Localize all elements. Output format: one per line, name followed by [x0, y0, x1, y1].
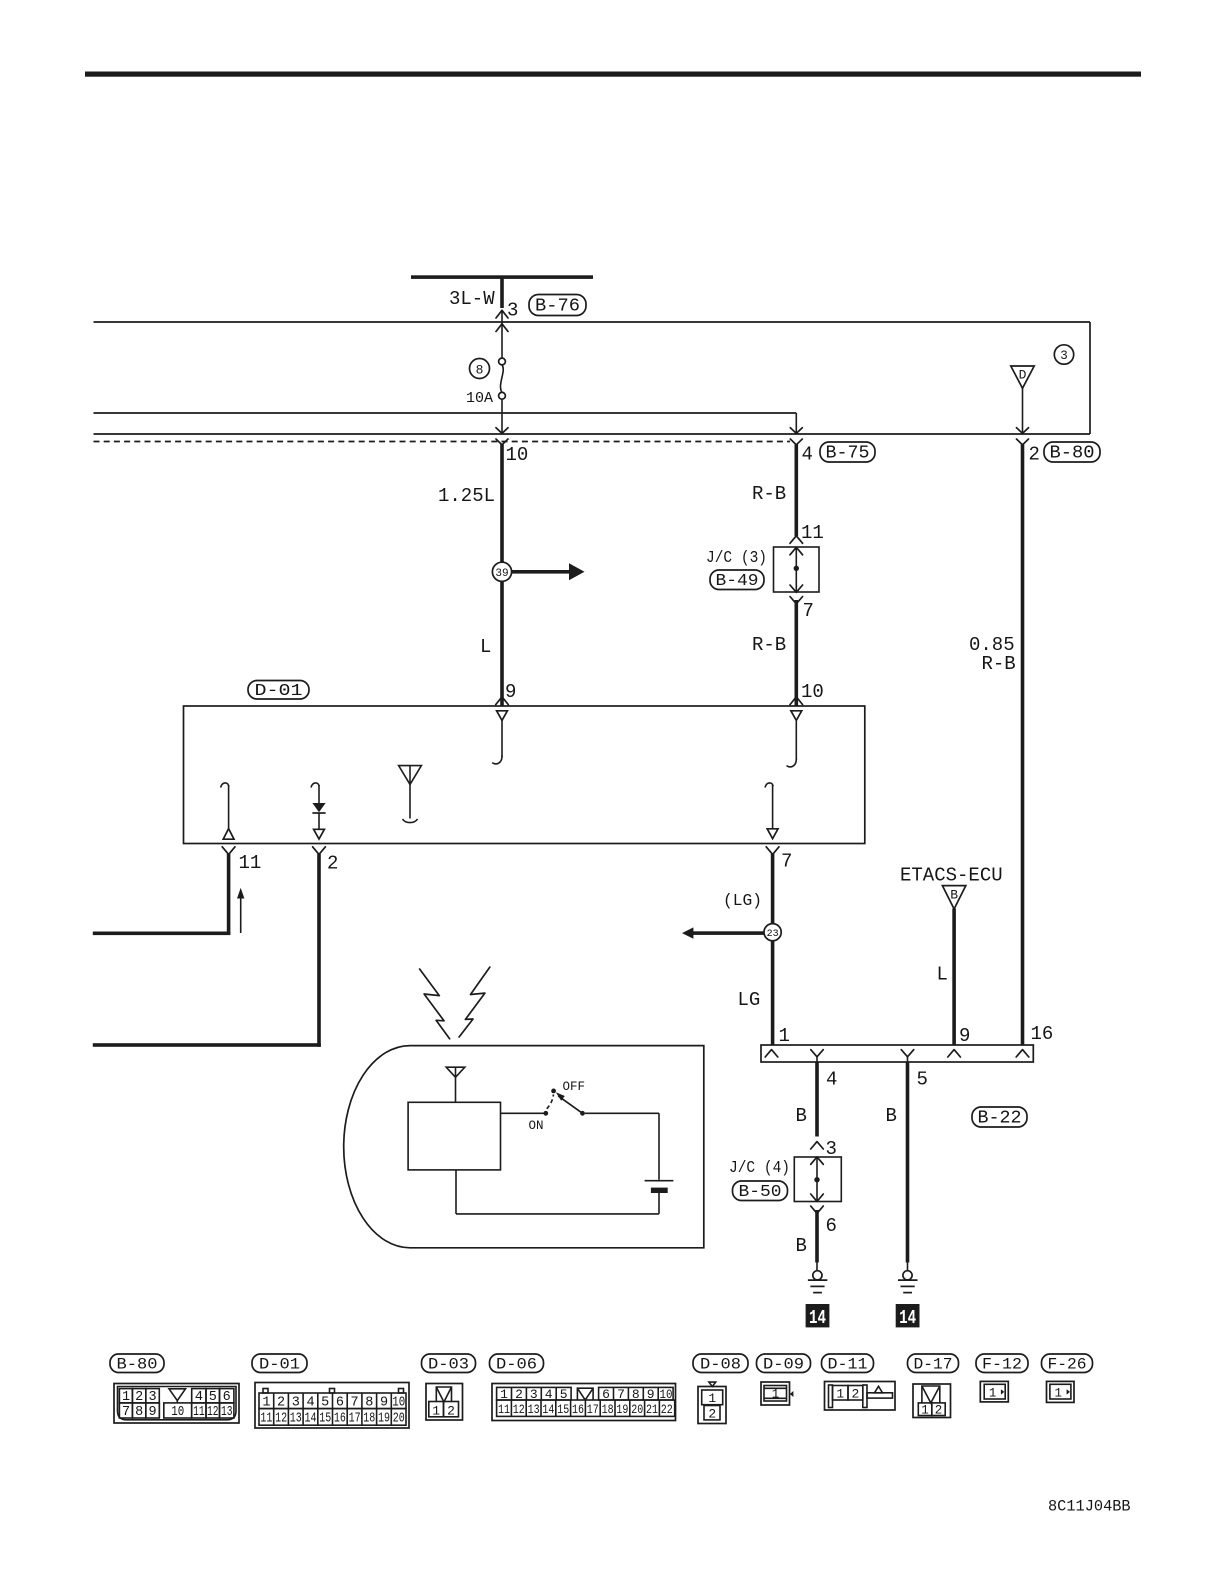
svg-text:D-17: D-17 [914, 1356, 953, 1374]
svg-text:9: 9 [647, 1387, 655, 1402]
svg-text:2: 2 [708, 1406, 716, 1421]
svg-text:8: 8 [365, 1396, 373, 1411]
svg-text:F-12: F-12 [982, 1356, 1022, 1374]
svg-text:B-50: B-50 [739, 1183, 782, 1202]
svg-text:4: 4 [545, 1387, 553, 1402]
svg-text:5: 5 [321, 1396, 329, 1411]
svg-text:D-11: D-11 [828, 1356, 868, 1374]
svg-text:1: 1 [989, 1387, 997, 1401]
svg-text:B: B [886, 1105, 897, 1127]
svg-text:3: 3 [1060, 349, 1068, 363]
svg-text:B-49: B-49 [716, 572, 759, 591]
svg-text:2: 2 [327, 853, 338, 875]
svg-text:R-B: R-B [982, 653, 1016, 675]
svg-text:ETACS-ECU: ETACS-ECU [900, 865, 1003, 887]
svg-text:2: 2 [515, 1387, 523, 1402]
svg-text:14: 14 [809, 1307, 826, 1329]
svg-text:10: 10 [171, 1405, 184, 1420]
svg-text:B-80: B-80 [117, 1356, 158, 1374]
svg-text:2: 2 [1029, 444, 1040, 466]
svg-text:17: 17 [349, 1412, 361, 1427]
svg-text:3: 3 [292, 1396, 300, 1411]
svg-text:16: 16 [572, 1402, 584, 1417]
svg-text:D-09: D-09 [763, 1356, 804, 1374]
svg-text:19: 19 [378, 1412, 390, 1427]
svg-text:12: 12 [275, 1412, 287, 1427]
svg-text:2: 2 [935, 1404, 943, 1418]
svg-text:15: 15 [557, 1402, 569, 1417]
svg-text:D-08: D-08 [700, 1356, 741, 1374]
svg-text:5: 5 [560, 1387, 568, 1402]
svg-text:20: 20 [631, 1402, 643, 1417]
svg-text:ON: ON [529, 1119, 544, 1133]
svg-text:23: 23 [767, 929, 779, 940]
svg-text:(LG): (LG) [723, 892, 762, 911]
svg-text:LG: LG [738, 989, 761, 1011]
svg-text:18: 18 [363, 1412, 375, 1427]
svg-text:R-B: R-B [752, 483, 786, 505]
svg-text:3: 3 [507, 300, 518, 322]
svg-text:2: 2 [135, 1390, 143, 1405]
svg-text:7: 7 [803, 600, 814, 622]
svg-text:5: 5 [917, 1069, 928, 1091]
svg-text:13: 13 [221, 1405, 233, 1420]
svg-text:1: 1 [122, 1390, 130, 1405]
svg-text:11: 11 [260, 1412, 272, 1427]
svg-text:OFF: OFF [563, 1080, 586, 1094]
svg-text:7: 7 [781, 851, 792, 873]
svg-text:B-80: B-80 [1050, 444, 1095, 464]
svg-text:39: 39 [495, 568, 508, 580]
svg-text:1: 1 [500, 1387, 508, 1402]
svg-text:16: 16 [334, 1412, 346, 1427]
svg-text:2: 2 [447, 1404, 455, 1419]
svg-text:3: 3 [530, 1387, 538, 1402]
svg-text:11: 11 [498, 1402, 510, 1417]
svg-text:8C11J04BB: 8C11J04BB [1048, 1498, 1131, 1516]
svg-text:11: 11 [193, 1405, 205, 1420]
svg-text:6: 6 [223, 1390, 231, 1405]
svg-text:B: B [796, 1235, 807, 1257]
svg-text:5: 5 [209, 1390, 217, 1405]
svg-text:7: 7 [122, 1405, 130, 1420]
svg-text:21: 21 [646, 1402, 658, 1417]
svg-text:9: 9 [380, 1396, 388, 1411]
svg-text:L: L [937, 964, 948, 986]
svg-text:B-76: B-76 [535, 297, 580, 317]
svg-text:1: 1 [432, 1404, 440, 1419]
svg-text:2: 2 [277, 1396, 285, 1411]
svg-text:8: 8 [135, 1405, 143, 1420]
svg-text:D-06: D-06 [496, 1356, 537, 1374]
svg-text:8: 8 [476, 362, 484, 377]
svg-text:6: 6 [826, 1215, 837, 1237]
svg-text:22: 22 [661, 1402, 673, 1417]
svg-text:9: 9 [505, 681, 516, 703]
svg-text:6: 6 [336, 1396, 344, 1411]
svg-text:4: 4 [826, 1069, 837, 1091]
svg-text:J/C (4): J/C (4) [729, 1159, 790, 1178]
svg-text:1: 1 [1055, 1387, 1063, 1401]
svg-text:1: 1 [708, 1391, 716, 1406]
svg-text:B-22: B-22 [978, 1109, 1022, 1129]
svg-text:1: 1 [836, 1387, 844, 1402]
svg-text:12: 12 [513, 1402, 525, 1417]
svg-text:J/C (3): J/C (3) [706, 549, 767, 568]
svg-text:6: 6 [602, 1387, 610, 1402]
svg-text:1: 1 [772, 1388, 780, 1402]
svg-text:15: 15 [319, 1412, 331, 1427]
svg-text:20: 20 [393, 1412, 405, 1427]
svg-text:14: 14 [899, 1307, 916, 1329]
svg-text:1.25L: 1.25L [438, 485, 495, 507]
svg-text:4: 4 [802, 444, 813, 466]
svg-text:1: 1 [779, 1025, 790, 1047]
svg-text:10: 10 [506, 444, 529, 466]
svg-text:13: 13 [528, 1402, 540, 1417]
svg-text:9: 9 [149, 1405, 157, 1420]
svg-text:11: 11 [801, 522, 824, 544]
svg-text:B: B [796, 1105, 807, 1127]
svg-text:14: 14 [542, 1402, 554, 1417]
svg-text:10: 10 [660, 1387, 673, 1402]
svg-text:10A: 10A [466, 390, 493, 407]
svg-text:D: D [1019, 368, 1027, 383]
svg-text:D-01: D-01 [255, 682, 303, 701]
svg-text:7: 7 [617, 1387, 625, 1402]
svg-text:1: 1 [921, 1404, 929, 1418]
svg-text:1: 1 [262, 1396, 270, 1411]
svg-text:8: 8 [632, 1387, 640, 1402]
svg-text:2: 2 [851, 1387, 859, 1402]
svg-text:9: 9 [959, 1025, 970, 1047]
svg-text:D-03: D-03 [428, 1356, 469, 1374]
svg-text:19: 19 [616, 1402, 628, 1417]
svg-text:B: B [950, 888, 958, 903]
svg-text:10: 10 [392, 1396, 405, 1411]
svg-text:7: 7 [351, 1396, 359, 1411]
svg-text:11: 11 [239, 852, 262, 874]
svg-text:13: 13 [290, 1412, 302, 1427]
svg-text:16: 16 [1031, 1023, 1054, 1045]
svg-text:R-B: R-B [752, 634, 786, 656]
svg-text:12: 12 [207, 1405, 219, 1420]
svg-text:14: 14 [305, 1412, 317, 1427]
svg-text:D-01: D-01 [259, 1356, 300, 1374]
svg-text:3: 3 [149, 1390, 157, 1405]
svg-text:L: L [480, 636, 491, 658]
svg-text:17: 17 [587, 1402, 599, 1417]
svg-text:B-75: B-75 [826, 444, 870, 464]
svg-text:18: 18 [602, 1402, 614, 1417]
svg-text:F-26: F-26 [1048, 1356, 1087, 1374]
svg-text:10: 10 [801, 681, 824, 703]
svg-text:4: 4 [306, 1396, 314, 1411]
svg-text:3L-W: 3L-W [449, 288, 495, 310]
svg-text:4: 4 [195, 1390, 203, 1405]
